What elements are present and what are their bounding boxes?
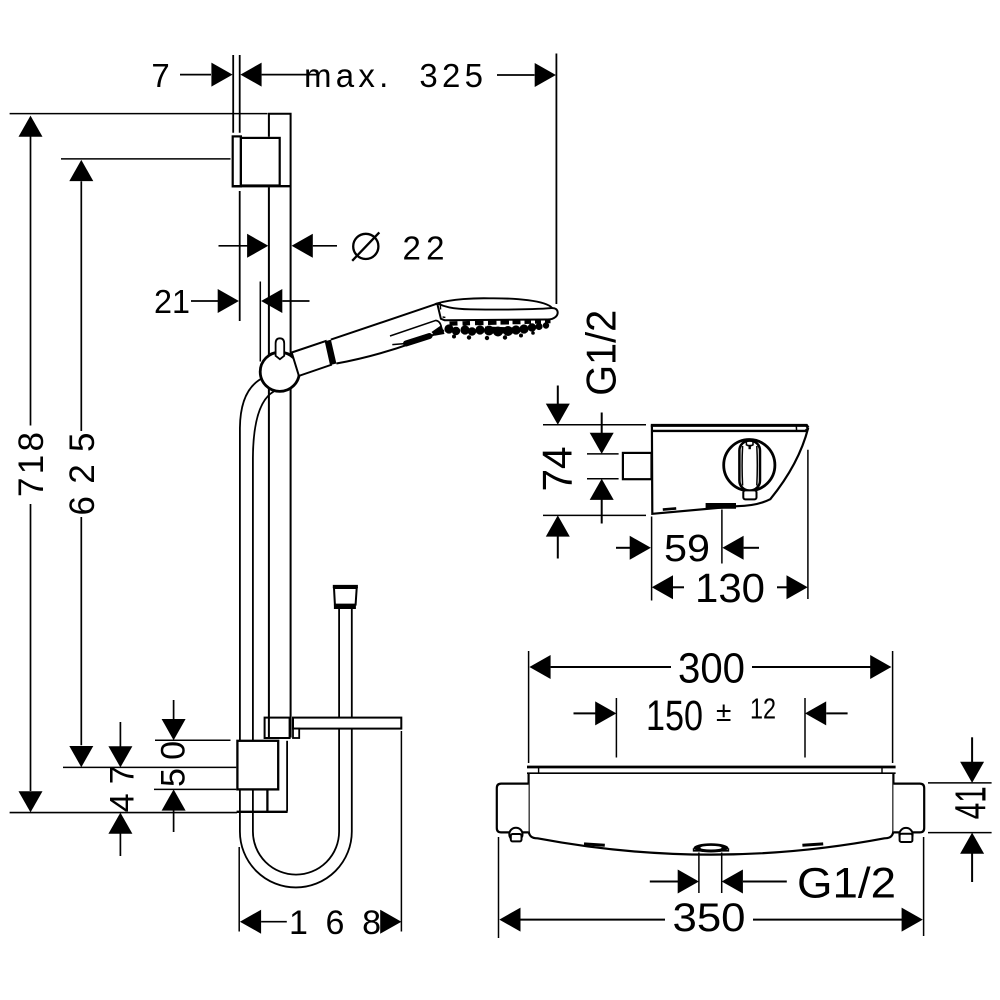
shower head small dash	[443, 316, 446, 318]
svg-text:150: 150	[646, 692, 703, 740]
wall bar tube	[269, 114, 291, 738]
dim 300 line right	[752, 666, 871, 668]
dim 168 arrow left	[240, 910, 261, 934]
dim 41 top tick	[928, 782, 992, 784]
dim 718 line lower	[30, 504, 32, 791]
svg-text:300: 300	[678, 645, 745, 693]
dim 718 line upper	[30, 136, 32, 426]
dim 150 left ref line	[615, 698, 617, 758]
side body bottom dash	[663, 508, 676, 509]
dim 300 arrow left	[529, 655, 550, 679]
dim 50 top arrow	[162, 719, 186, 740]
dim G12 front arrow right	[722, 870, 743, 894]
front left cap square	[511, 834, 522, 841]
dim 168 right ref line	[400, 731, 402, 932]
lower bracket square	[237, 741, 278, 790]
bar end hidden edge	[286, 741, 288, 812]
dim 150 tail right	[826, 712, 847, 714]
dim G12 side top tick	[587, 453, 619, 455]
dim G12 side top arrow	[590, 433, 614, 454]
hose left branch below bracket outer	[239, 790, 241, 832]
svg-text:±: ±	[716, 696, 731, 727]
dim 7 arrow left	[211, 63, 232, 87]
dim 625 top arrow	[69, 160, 93, 181]
dim 718 bottom arrow	[19, 791, 43, 812]
dim 718 top arrow	[19, 116, 43, 137]
side body top plate	[651, 425, 808, 428]
front top plate thick line	[527, 766, 896, 769]
thermostat side body	[652, 425, 808, 514]
svg-text:350: 350	[673, 896, 746, 940]
dim 74 top tick	[543, 424, 646, 426]
hose end cone	[334, 588, 357, 605]
handle body	[331, 304, 444, 364]
dim G12 side label line	[601, 413, 603, 434]
dim 21 tail left	[191, 300, 218, 302]
side knob grip inner right	[756, 446, 759, 486]
front bottom dash left	[584, 844, 605, 845]
side inlet connector	[623, 453, 652, 479]
handle inner line b	[392, 344, 404, 345]
hose right branch outer	[338, 609, 340, 832]
dim G12 front ext line left	[698, 853, 700, 894]
dim G12 front tail left	[650, 881, 679, 883]
dim 21 arrow right	[261, 289, 282, 313]
dim 50 bottom arrow	[162, 789, 186, 810]
wall rod left line	[232, 55, 234, 133]
dim G12 side bottom arrow	[590, 479, 614, 500]
lower shelf arm step	[293, 729, 299, 738]
svg-text:12: 12	[750, 693, 776, 725]
dim 21 extension line	[259, 282, 261, 362]
dim max325 tail	[497, 74, 535, 76]
upper bracket wall flange	[233, 136, 241, 186]
side knob grip top notch	[746, 441, 753, 446]
dim 300 line left	[551, 666, 671, 668]
wall rod right line	[239, 55, 241, 133]
front bottom dash right	[802, 844, 823, 845]
dim 74 bottom tick	[543, 514, 646, 516]
dim 74 bottom arrow	[546, 515, 570, 536]
dim 41 top arrow	[960, 762, 984, 783]
dim 350 line right	[753, 919, 903, 921]
front right cap circle	[899, 828, 912, 841]
dim 7 arrow right	[240, 63, 261, 87]
dim 41 bottom tick	[928, 832, 992, 834]
front top plate right seam	[881, 768, 883, 773]
dim G12 side bottom tick	[587, 478, 619, 480]
hose end nut	[334, 604, 356, 609]
dim diameter22 tail right	[313, 245, 337, 247]
hose left branch inner	[253, 391, 276, 741]
upper bracket body	[241, 138, 280, 186]
dim 150 right ref line	[804, 698, 806, 758]
dim 168 arrow right	[380, 910, 401, 934]
shower head left tick	[439, 303, 441, 310]
dim 625 top ref line	[61, 158, 231, 160]
dim 130 arrow left	[652, 575, 673, 599]
hose left branch below bracket inner	[252, 790, 254, 832]
side body outlet dark mark	[706, 503, 736, 509]
dim diameter22 arrow right	[292, 234, 313, 258]
handle inner line a	[390, 320, 441, 336]
dim 47 bottom arrow	[108, 813, 132, 834]
dim 300 left ref line	[528, 651, 530, 763]
dim 718 bottom ref line	[10, 812, 237, 814]
slider circle	[260, 352, 299, 391]
front body	[529, 774, 894, 855]
side knob bottom tab	[743, 490, 756, 499]
front left cap circle	[509, 828, 522, 841]
dim 47 top arrow	[108, 746, 132, 767]
slider knob	[276, 338, 285, 359]
dim 350 line left	[521, 919, 666, 921]
side knob circle	[724, 440, 775, 491]
svg-text:59: 59	[664, 528, 710, 570]
dim 21 tail right	[282, 300, 309, 302]
front left end cap	[497, 784, 529, 833]
handle select button	[406, 336, 430, 344]
dim 300 right ref line	[892, 651, 894, 763]
svg-text:7: 7	[151, 57, 169, 94]
dim 625 line lower	[80, 517, 82, 745]
dim 130 right ref line	[807, 450, 809, 599]
lower unit section B	[237, 790, 288, 812]
side knob grip	[739, 441, 760, 491]
dim 7 right tail	[262, 74, 318, 76]
handle cone	[292, 341, 331, 376]
diameter symbol	[353, 234, 378, 259]
dim 50 top tick	[155, 739, 231, 741]
svg-text:168: 168	[289, 904, 381, 942]
shower head shadow wedge	[432, 325, 445, 336]
front top plate thin line	[527, 772, 896, 774]
side knob grip notch tick	[749, 445, 751, 449]
dim 350 arrow left	[499, 908, 520, 932]
svg-text:718: 718	[12, 432, 51, 497]
dim 130 arrow right	[787, 575, 808, 599]
dim G12 front tail right	[743, 881, 787, 883]
spray nozzle blobs	[444, 322, 549, 340]
dim 625 line upper	[80, 181, 82, 431]
handle joint dark band	[326, 340, 337, 365]
front right cap square	[900, 834, 913, 842]
hose U-bend inner	[253, 832, 339, 875]
hose end cone top edge	[333, 585, 358, 588]
side body top plate lower line	[652, 428, 808, 431]
front right end cap	[893, 784, 924, 833]
dim 350 left ref line	[498, 837, 500, 938]
dim 625 bottom arrow	[69, 746, 93, 767]
svg-text:41: 41	[947, 786, 996, 819]
dim 41 bottom arrow	[960, 833, 984, 854]
svg-text:130: 130	[695, 565, 765, 611]
shower head body band	[437, 303, 557, 320]
upper bracket bottom line	[232, 185, 291, 187]
dim diameter22 arrow left	[247, 234, 268, 258]
dim 150 tail left	[574, 712, 597, 714]
shower head top face	[437, 298, 552, 309]
hose right branch inner	[351, 609, 353, 832]
dim 59 tail left	[616, 547, 631, 549]
svg-text:74: 74	[534, 447, 581, 492]
dim 150 arrow left	[595, 701, 616, 725]
hose left branch outer	[240, 378, 262, 740]
dim G12 front ext line right	[721, 853, 723, 894]
dim G12 front arrow left	[678, 870, 699, 894]
dim 130 left ref line	[651, 517, 653, 601]
svg-text:21: 21	[154, 283, 190, 320]
front top plate left seam	[538, 768, 540, 773]
dim 59 arrow right-point	[630, 536, 651, 560]
svg-text:625: 625	[63, 433, 102, 516]
front outlet ring	[694, 848, 729, 851]
dim 350 right ref line	[923, 837, 925, 936]
dim 7 text-side tail	[180, 74, 211, 76]
dim 168 left ref line	[238, 847, 240, 932]
dim 59 arrow left-point	[722, 536, 743, 560]
side body top plate seam	[795, 426, 797, 431]
dim max325 arrow	[535, 63, 556, 87]
dim diameter22 tail left	[219, 245, 249, 247]
dim 47 tick top	[63, 766, 236, 768]
dim 21 arrow left	[218, 289, 239, 313]
dim 50 bottom tick	[154, 788, 236, 790]
dim 74 top arrow	[546, 404, 570, 425]
svg-text:max. 325: max. 325	[304, 57, 483, 94]
dim 300 arrow right	[870, 655, 891, 679]
wall bar tube left edge below bracket	[268, 187, 270, 737]
side knob grip inner left	[741, 446, 744, 486]
wall rod lower segment	[239, 191, 241, 321]
lower unit section A	[265, 718, 290, 738]
dim 150 arrow right	[805, 701, 826, 725]
dim 59 ref line	[721, 510, 723, 564]
max325 reference line	[555, 54, 557, 305]
dim 350 arrow right	[902, 908, 923, 932]
dim 718 top ref line	[10, 113, 268, 115]
svg-text:G1/2: G1/2	[578, 310, 625, 396]
lower shelf arm	[293, 718, 401, 729]
svg-text:G1/2: G1/2	[797, 860, 896, 908]
spray nozzles	[450, 321, 551, 324]
hose U-bend outer	[240, 832, 352, 888]
